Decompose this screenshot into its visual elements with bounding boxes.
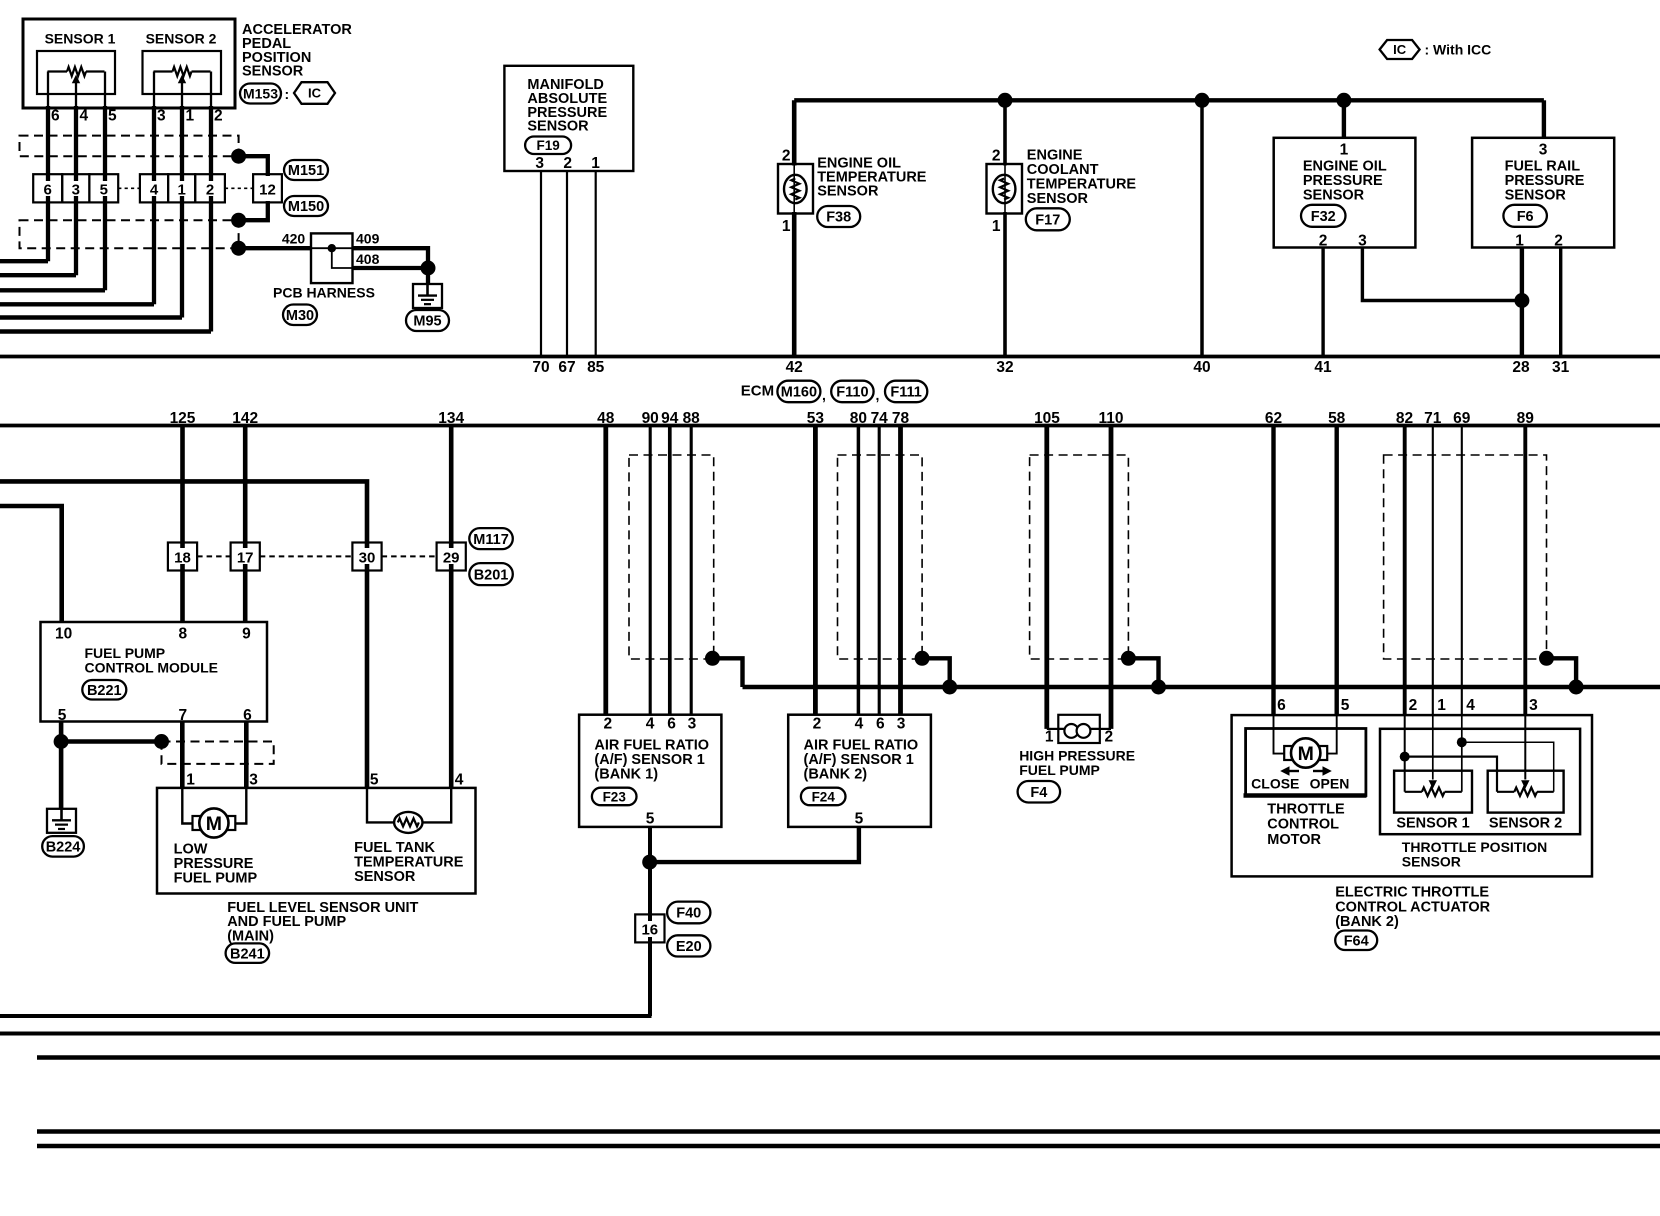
svg-text:5: 5 — [646, 811, 655, 828]
svg-text:1: 1 — [591, 155, 600, 172]
svg-text:4: 4 — [646, 716, 655, 733]
svg-text:82: 82 — [1396, 410, 1413, 427]
svg-text:12: 12 — [259, 182, 276, 199]
svg-text:30: 30 — [359, 550, 376, 567]
svg-text:: With ICC: : With ICC — [1425, 42, 1492, 58]
svg-text:17: 17 — [237, 550, 254, 567]
svg-text:88: 88 — [683, 410, 701, 427]
svg-text:3: 3 — [535, 155, 544, 172]
svg-text:F64: F64 — [1344, 933, 1369, 949]
svg-text:F6: F6 — [1517, 209, 1534, 225]
svg-text:90: 90 — [642, 410, 659, 427]
svg-text:F40: F40 — [676, 906, 701, 922]
svg-text:71: 71 — [1424, 410, 1442, 427]
svg-text:53: 53 — [807, 410, 825, 427]
svg-text:M: M — [1298, 743, 1314, 765]
svg-text:(MAIN): (MAIN) — [227, 929, 274, 945]
svg-text:1: 1 — [992, 218, 1001, 235]
svg-text:B221: B221 — [87, 683, 122, 699]
svg-text:2: 2 — [206, 182, 214, 199]
svg-text:3: 3 — [157, 108, 166, 125]
svg-text:420: 420 — [282, 231, 306, 247]
svg-text:4: 4 — [150, 182, 159, 199]
svg-text:32: 32 — [996, 359, 1013, 376]
svg-text:10: 10 — [55, 626, 72, 643]
svg-text:M151: M151 — [288, 163, 324, 179]
svg-text:FUEL PUMP: FUEL PUMP — [174, 870, 258, 886]
svg-text:3: 3 — [1539, 142, 1548, 159]
svg-text:78: 78 — [892, 410, 910, 427]
svg-text:M150: M150 — [288, 199, 324, 215]
svg-text:4: 4 — [855, 716, 864, 733]
svg-text:48: 48 — [597, 410, 615, 427]
svg-text:1: 1 — [186, 772, 195, 789]
svg-text:CLOSE: CLOSE — [1251, 776, 1299, 792]
svg-text:SENSOR 1: SENSOR 1 — [1396, 816, 1469, 832]
svg-text:CONTROL MODULE: CONTROL MODULE — [85, 660, 219, 676]
svg-text:E20: E20 — [676, 939, 702, 955]
svg-text:6: 6 — [876, 716, 885, 733]
svg-text:SENSOR: SENSOR — [354, 869, 416, 885]
svg-text:6: 6 — [667, 716, 676, 733]
svg-text:,: , — [876, 387, 880, 403]
svg-text:3: 3 — [688, 716, 697, 733]
svg-text:41: 41 — [1314, 359, 1332, 376]
svg-text:3: 3 — [72, 182, 80, 199]
svg-text:2: 2 — [1105, 729, 1114, 746]
svg-text:B241: B241 — [230, 946, 265, 962]
svg-text:2: 2 — [782, 148, 791, 165]
svg-text:40: 40 — [1193, 359, 1210, 376]
svg-text:31: 31 — [1552, 359, 1570, 376]
svg-text:SENSOR: SENSOR — [1303, 187, 1365, 203]
svg-text:M30: M30 — [286, 308, 314, 324]
svg-text:6: 6 — [51, 108, 60, 125]
svg-text:1: 1 — [1340, 142, 1349, 159]
svg-text:SENSOR: SENSOR — [817, 183, 879, 199]
svg-text:6: 6 — [44, 182, 52, 199]
svg-text:SENSOR 1: SENSOR 1 — [45, 31, 116, 47]
svg-text:70: 70 — [532, 359, 549, 376]
svg-text:3: 3 — [249, 772, 258, 789]
svg-text:58: 58 — [1328, 410, 1346, 427]
svg-text:M153: M153 — [243, 86, 278, 102]
svg-text:SENSOR 2: SENSOR 2 — [146, 31, 217, 47]
svg-text:125: 125 — [170, 410, 196, 427]
svg-text:94: 94 — [661, 410, 679, 427]
svg-text:28: 28 — [1512, 359, 1530, 376]
svg-text:5: 5 — [1341, 697, 1350, 714]
svg-text:4: 4 — [80, 108, 89, 125]
svg-text:2: 2 — [992, 148, 1001, 165]
svg-text:2: 2 — [1409, 697, 1418, 714]
svg-text:SENSOR: SENSOR — [1402, 854, 1461, 870]
svg-text:2: 2 — [1554, 233, 1563, 250]
svg-text:M95: M95 — [413, 314, 441, 330]
svg-text:105: 105 — [1034, 410, 1060, 427]
svg-text:85: 85 — [587, 359, 605, 376]
svg-text:5: 5 — [100, 182, 108, 199]
svg-text:2: 2 — [563, 155, 572, 172]
svg-text:MOTOR: MOTOR — [1267, 832, 1321, 848]
svg-text:F4: F4 — [1030, 785, 1047, 801]
svg-text:F19: F19 — [536, 138, 559, 153]
svg-text:B201: B201 — [474, 567, 509, 583]
svg-text:409: 409 — [356, 231, 380, 247]
svg-text:69: 69 — [1453, 410, 1471, 427]
svg-text:ELECTRIC THROTTLE: ELECTRIC THROTTLE — [1335, 885, 1489, 901]
svg-text:80: 80 — [850, 410, 867, 427]
svg-text:(BANK 2): (BANK 2) — [1335, 914, 1399, 930]
svg-text:M: M — [206, 813, 222, 835]
svg-text:8: 8 — [178, 626, 187, 643]
svg-text:62: 62 — [1265, 410, 1282, 427]
svg-text:16: 16 — [641, 922, 658, 939]
svg-text:1: 1 — [1045, 729, 1054, 746]
svg-text:9: 9 — [242, 626, 251, 643]
svg-text:110: 110 — [1098, 410, 1123, 427]
svg-text:1: 1 — [1515, 233, 1524, 250]
svg-text:(BANK 2): (BANK 2) — [804, 766, 868, 782]
svg-text:F38: F38 — [826, 210, 851, 226]
svg-text:PCB HARNESS: PCB HARNESS — [273, 285, 375, 301]
svg-text:5: 5 — [58, 707, 67, 724]
svg-text:B224: B224 — [46, 840, 81, 856]
svg-text:2: 2 — [603, 716, 612, 733]
svg-text:1: 1 — [1437, 697, 1446, 714]
svg-text:2: 2 — [813, 716, 822, 733]
svg-text:5: 5 — [370, 772, 379, 789]
svg-text:3: 3 — [1358, 233, 1367, 250]
svg-text:18: 18 — [174, 550, 191, 567]
svg-text:M160: M160 — [781, 385, 817, 401]
svg-text:134: 134 — [438, 410, 464, 427]
svg-text:SENSOR: SENSOR — [242, 64, 304, 80]
svg-text:,: , — [822, 387, 826, 403]
svg-text:IC: IC — [1393, 42, 1407, 57]
svg-text:FUEL PUMP: FUEL PUMP — [1019, 762, 1100, 778]
svg-text:4: 4 — [1466, 697, 1475, 714]
svg-text::: : — [285, 86, 290, 102]
svg-text:5: 5 — [855, 811, 864, 828]
svg-text:SENSOR: SENSOR — [1505, 187, 1567, 203]
svg-text:67: 67 — [558, 359, 575, 376]
svg-text:42: 42 — [786, 359, 803, 376]
svg-text:2: 2 — [214, 108, 223, 125]
svg-text:29: 29 — [443, 550, 460, 567]
svg-text:SENSOR 2: SENSOR 2 — [1489, 816, 1562, 832]
svg-text:408: 408 — [356, 251, 380, 267]
svg-text:OPEN: OPEN — [1310, 776, 1350, 792]
svg-text:1: 1 — [782, 218, 791, 235]
svg-text:THROTTLE: THROTTLE — [1267, 802, 1345, 818]
svg-text:1: 1 — [186, 108, 195, 125]
svg-text:F23: F23 — [603, 789, 627, 804]
svg-text:ECM: ECM — [741, 383, 774, 400]
svg-text:F111: F111 — [890, 385, 921, 401]
svg-text:F24: F24 — [812, 789, 836, 804]
svg-text:74: 74 — [871, 410, 889, 427]
svg-text:F32: F32 — [1311, 209, 1336, 225]
svg-text:4: 4 — [455, 772, 464, 789]
svg-text:M117: M117 — [473, 532, 508, 548]
svg-text:F110: F110 — [836, 385, 868, 401]
svg-text:SENSOR: SENSOR — [1027, 191, 1089, 207]
svg-text:142: 142 — [232, 410, 258, 427]
svg-text:3: 3 — [897, 716, 906, 733]
svg-text:(BANK 1): (BANK 1) — [594, 766, 658, 782]
svg-text:F17: F17 — [1035, 213, 1060, 229]
svg-text:89: 89 — [1517, 410, 1535, 427]
svg-text:3: 3 — [1529, 697, 1538, 714]
svg-text:CONTROL: CONTROL — [1267, 817, 1339, 833]
svg-text:5: 5 — [108, 108, 117, 125]
svg-text:SENSOR: SENSOR — [527, 119, 589, 135]
svg-text:CONTROL ACTUATOR: CONTROL ACTUATOR — [1335, 899, 1490, 915]
svg-text:IC: IC — [308, 86, 322, 101]
svg-text:2: 2 — [1319, 233, 1328, 250]
svg-text:6: 6 — [243, 707, 252, 724]
svg-text:1: 1 — [177, 182, 185, 199]
svg-text:7: 7 — [178, 707, 187, 724]
svg-text:6: 6 — [1277, 697, 1286, 714]
